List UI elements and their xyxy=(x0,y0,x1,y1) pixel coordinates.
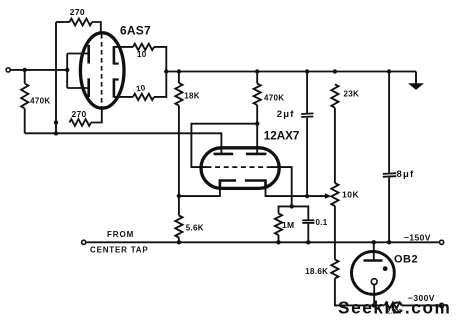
wire top rail xyxy=(166,71,416,73)
capacitor 8uf xyxy=(388,72,390,173)
svg-text:FROM: FROM xyxy=(107,230,134,239)
resistor 470K (input divider) xyxy=(24,70,26,84)
node rail/8uf xyxy=(387,69,391,73)
node rail/10s xyxy=(164,69,168,73)
svg-text:18.6K: 18.6K xyxy=(305,267,328,276)
node input/470K junction xyxy=(23,68,27,72)
node 8uf/-150V xyxy=(387,240,391,244)
node OB2/-150V xyxy=(372,240,376,244)
svg-text:6AS7: 6AS7 xyxy=(120,24,151,38)
svg-text:12AX7: 12AX7 xyxy=(264,129,300,142)
resistor 18K xyxy=(178,72,180,84)
resistor 2.2K xyxy=(374,304,385,306)
12AX7 grid dashed xyxy=(207,166,276,168)
terminal FROM CENTER TAP xyxy=(82,240,86,244)
capacitor 0.1 xyxy=(292,206,309,219)
svg-text:−150V: −150V xyxy=(404,232,431,242)
svg-text:10: 10 xyxy=(135,83,146,93)
svg-text:CENTER TAP: CENTER TAP xyxy=(90,245,149,254)
wire 10K to 18.6K xyxy=(334,206,336,260)
node rail/23K xyxy=(333,69,337,73)
node 18K/cathode xyxy=(177,194,181,198)
12AX7 right plate xyxy=(246,153,267,156)
resistor 270 (top) xyxy=(56,21,70,23)
resistor 470K (plate load) xyxy=(256,72,258,84)
node 2uf/cathode/wiper xyxy=(305,194,309,198)
node 470K/right plate xyxy=(255,122,259,126)
OB2 plate xyxy=(364,259,383,262)
wire grid fork vertical xyxy=(66,54,68,89)
6AS7 lower-left plate xyxy=(87,78,90,97)
-150V terminal xyxy=(440,240,444,244)
6AS7 lower-right cathode xyxy=(113,78,116,97)
resistor 18.6K xyxy=(331,260,338,279)
ground xyxy=(415,72,417,85)
OB2 gas dot xyxy=(383,266,388,271)
svg-text:270: 270 xyxy=(72,109,87,119)
node OB2 cathode/bottom xyxy=(372,303,376,307)
wire input to grid fork xyxy=(10,69,67,71)
wire 270 loop left vertical xyxy=(55,22,57,133)
svg-text:2μf: 2μf xyxy=(277,109,295,120)
svg-text:270: 270 xyxy=(70,7,85,17)
6AS7 upper-right cathode xyxy=(113,46,116,65)
svg-text:0.1: 0.1 xyxy=(316,218,328,227)
svg-text:OB2: OB2 xyxy=(394,254,418,266)
resistor 10 (upper) xyxy=(133,44,154,50)
svg-text:1M: 1M xyxy=(282,220,294,230)
node rail/18K xyxy=(177,69,181,73)
node rail/470K xyxy=(255,69,259,73)
tube 6AS7 envelope xyxy=(80,33,124,108)
tube 12AX7 envelope xyxy=(201,148,279,189)
node bottom 270 left xyxy=(54,120,58,124)
node rail/2uf xyxy=(305,69,309,73)
6AS7 upper-left plate xyxy=(87,45,90,64)
potentiometer 10K xyxy=(331,183,338,206)
12AX7 left cathode xyxy=(220,181,236,188)
wire W1 470K to 12AX7 grid xyxy=(191,124,257,167)
svg-text:10K: 10K xyxy=(342,190,359,200)
resistor 23K xyxy=(331,84,338,107)
svg-text:470K: 470K xyxy=(30,96,50,105)
node grid/1M/0.1 xyxy=(290,204,294,208)
node 1M/bus xyxy=(276,240,280,244)
12AX7 left plate xyxy=(214,153,234,156)
resistor 270 (bottom) xyxy=(70,119,92,126)
resistor 10 (lower) xyxy=(133,94,154,100)
capacitor 2uf xyxy=(306,72,308,113)
svg-text:470K: 470K xyxy=(264,94,284,103)
resistor 5.6K xyxy=(178,196,180,216)
svg-text:18K: 18K xyxy=(184,92,200,101)
svg-text:5.6K: 5.6K xyxy=(186,223,204,232)
node 5.6K/center-tap line xyxy=(177,240,181,244)
OB2 cathode xyxy=(371,279,377,285)
tube OB2 envelope xyxy=(352,252,395,295)
wire bus to 12AX7 left plate xyxy=(25,133,222,154)
svg-text:8μf: 8μf xyxy=(397,169,415,180)
svg-text:10: 10 xyxy=(137,50,147,59)
input terminal xyxy=(6,68,10,72)
node 0.1/bus xyxy=(306,240,310,244)
resistor 1M xyxy=(279,206,292,213)
node bus/270-loop xyxy=(54,131,58,135)
svg-text:SeekIC.com: SeekIC.com xyxy=(338,298,451,318)
wire center tap to -150V xyxy=(86,241,439,243)
6AS7 grid dashed line xyxy=(101,34,103,107)
12AX7 right cathode xyxy=(245,181,266,188)
wiper arrow to 10K xyxy=(307,195,327,197)
node grid fork xyxy=(65,68,69,72)
12AX7 right grid lead xyxy=(271,167,292,206)
svg-text:23K: 23K xyxy=(344,90,360,99)
-300V terminal xyxy=(440,303,444,307)
